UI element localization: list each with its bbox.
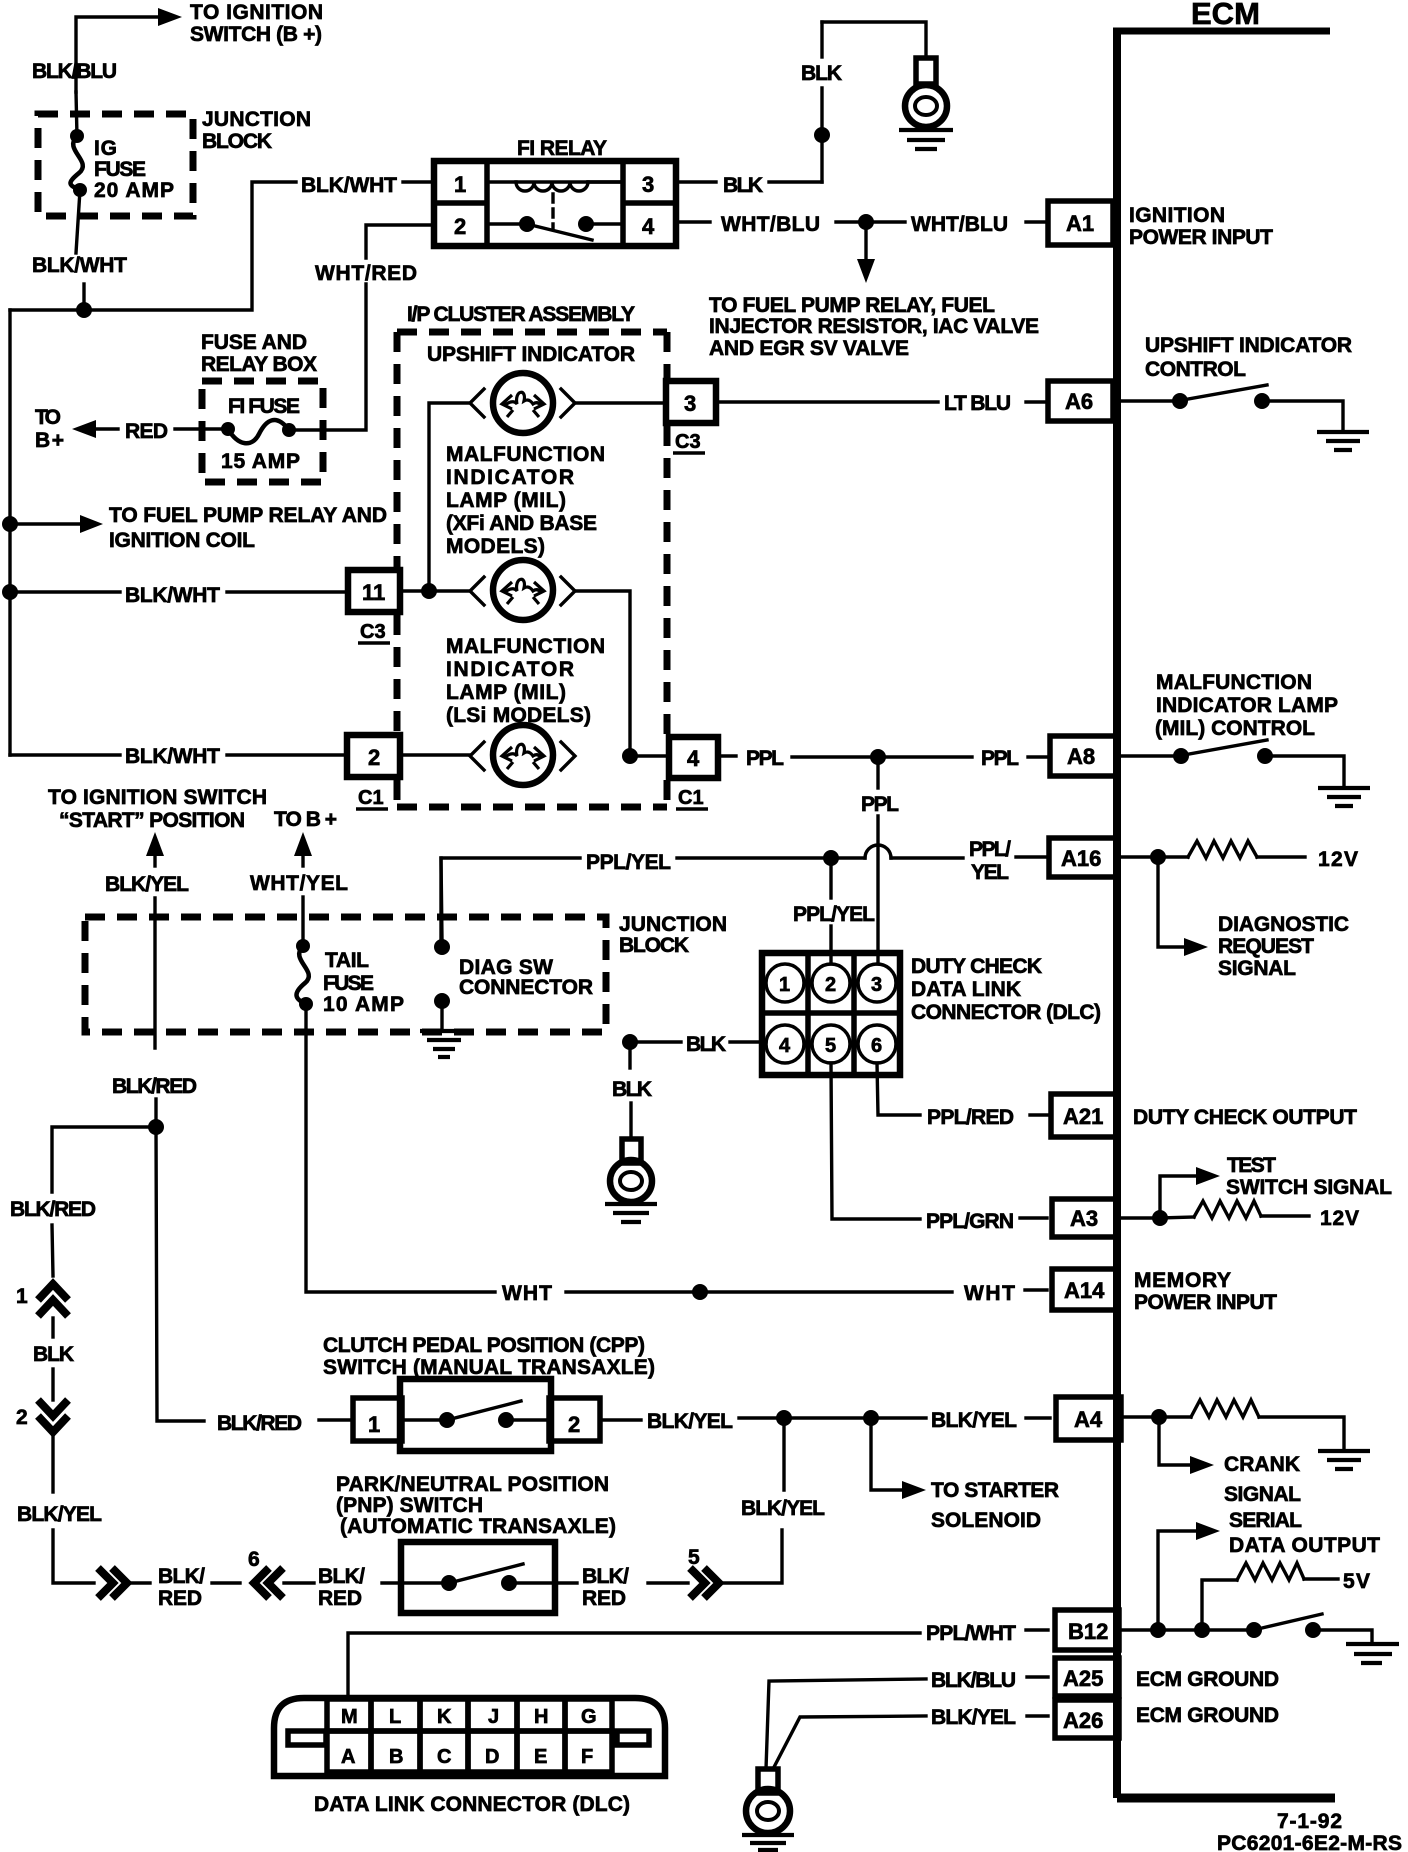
svg-text:B12: B12 xyxy=(1068,1619,1108,1644)
connector pin 2 (C1) xyxy=(347,735,400,777)
svg-text:2: 2 xyxy=(825,974,836,996)
net label TO FUEL PUMP RELAY AND IGNITION COIL xyxy=(109,504,387,552)
connector A25 xyxy=(1055,1658,1119,1696)
wire into PNP switch xyxy=(382,1581,401,1584)
label C3 xyxy=(358,621,390,643)
wire WHT/YEL into tail fuse xyxy=(301,897,304,946)
svg-text:AND EGR SV VALVE: AND EGR SV VALVE xyxy=(709,337,909,360)
svg-text:3: 3 xyxy=(871,974,882,996)
svg-text:BLK: BLK xyxy=(33,1343,74,1366)
wire PPL from pin 4 xyxy=(718,754,736,757)
wire stub into A6 xyxy=(1026,400,1045,403)
node A4 branch xyxy=(1151,1409,1167,1425)
PNP contacts xyxy=(401,1564,555,1591)
ground B12 xyxy=(1346,1644,1399,1663)
svg-text:PPL/RED: PPL/RED xyxy=(927,1106,1014,1129)
wire BLK/YEL from eyelet to A26 xyxy=(773,1716,1048,1769)
svg-text:BLK/BLU: BLK/BLU xyxy=(32,60,117,83)
svg-text:4: 4 xyxy=(642,214,655,239)
inline connector 5 (right chevrons) xyxy=(688,1546,719,1598)
DLC cells row 1 xyxy=(327,1699,612,1731)
svg-text:BLK/YEL: BLK/YEL xyxy=(931,1409,1017,1432)
resistor pull-up to 12V (test) xyxy=(1160,1201,1309,1218)
svg-text:YEL: YEL xyxy=(971,861,1009,884)
wire BLK/YEL to A4 xyxy=(739,1416,1050,1419)
svg-text:POWER INPUT: POWER INPUT xyxy=(1134,1291,1277,1314)
connector pin 4 (C1) xyxy=(669,737,718,778)
svg-text:A25: A25 xyxy=(1063,1666,1103,1691)
svg-text:BLK/YEL: BLK/YEL xyxy=(931,1706,1016,1729)
inline connector 6 (left chevrons) xyxy=(248,1548,283,1598)
svg-text:WHT/BLU: WHT/BLU xyxy=(911,213,1008,236)
svg-text:BLK/: BLK/ xyxy=(158,1565,205,1588)
svg-text:BLK: BLK xyxy=(686,1033,726,1056)
DLC pin 5 xyxy=(812,1025,850,1063)
svg-text:BLK/BLU: BLK/BLU xyxy=(931,1669,1016,1692)
node BLK/YEL from PNP riser xyxy=(776,1410,792,1426)
DLC data link connector body xyxy=(274,1698,665,1776)
node main BLK/WHT junction xyxy=(76,302,92,318)
svg-text:WHT: WHT xyxy=(964,1282,1015,1305)
ground diag sw xyxy=(420,1031,468,1057)
svg-text:TAIL: TAIL xyxy=(325,949,369,972)
wire pin 2 to lamp xyxy=(400,753,470,756)
svg-text:MALFUNCTION: MALFUNCTION xyxy=(1156,671,1312,694)
wire from A4 xyxy=(1121,1415,1152,1418)
wire BLK/BLU from eyelet to A25 xyxy=(766,1677,1048,1769)
svg-text:BLK/WHT: BLK/WHT xyxy=(125,745,220,768)
wire segment xyxy=(51,1318,54,1337)
wire arrow serial data output xyxy=(1158,1522,1220,1630)
wire pin 11 to lamp xyxy=(400,589,470,592)
wire PPL to junction xyxy=(792,755,870,758)
wire to ignition switch B+ xyxy=(76,8,182,92)
svg-text:BLK/: BLK/ xyxy=(582,1565,629,1588)
svg-text:INJECTOR RESISTOR, IAC VALVE: INJECTOR RESISTOR, IAC VALVE xyxy=(709,315,1039,338)
net label SERIAL DATA OUTPUT xyxy=(1229,1509,1380,1557)
net label TO IGNITION SWITCH "START" POSITION xyxy=(48,786,267,832)
node BLK/RED branch xyxy=(148,1119,164,1135)
svg-text:IGNITION: IGNITION xyxy=(1129,204,1225,227)
svg-text:PPL/YEL: PPL/YEL xyxy=(586,851,671,874)
svg-text:CONNECTOR: CONNECTOR xyxy=(459,976,593,999)
wire stub into A8 xyxy=(1028,755,1046,758)
wire stub into A3 xyxy=(1020,1216,1047,1219)
wire from A3 xyxy=(1121,1216,1152,1219)
svg-text:LAMP (MIL): LAMP (MIL) xyxy=(446,681,566,704)
svg-text:SOLENOID: SOLENOID xyxy=(931,1509,1041,1532)
svg-text:3: 3 xyxy=(684,391,696,416)
svg-text:DATA OUTPUT: DATA OUTPUT xyxy=(1229,1534,1380,1557)
wire stub into CPP pin 1 xyxy=(319,1418,353,1421)
svg-text:6: 6 xyxy=(871,1035,882,1057)
svg-text:“START” POSITION: “START” POSITION xyxy=(59,809,245,832)
wire MIL XFi to LSi drop xyxy=(575,591,630,756)
svg-text:J: J xyxy=(488,1706,499,1728)
wire label PPL/ YEL (at A16) xyxy=(969,838,1011,884)
connector A1 xyxy=(1048,201,1113,245)
wire fuse output down xyxy=(76,190,80,253)
wire lamp to pin 3 xyxy=(575,401,666,404)
svg-text:12V: 12V xyxy=(1320,1207,1359,1230)
ground eyelet (ECM grounds) xyxy=(742,1769,794,1850)
svg-text:A1: A1 xyxy=(1066,211,1094,236)
wire into DLC pin 4 xyxy=(730,1040,766,1043)
svg-text:B +: B + xyxy=(35,429,64,452)
wire PPL to A8 xyxy=(886,755,972,758)
wire BLK/YEL down through junction block xyxy=(153,898,156,1048)
svg-text:PPL: PPL xyxy=(746,747,784,770)
svg-text:G: G xyxy=(581,1706,597,1728)
wire segment xyxy=(52,1225,53,1276)
resistor crank pull to ground xyxy=(1159,1400,1344,1449)
svg-text:LAMP (MIL): LAMP (MIL) xyxy=(446,489,566,512)
junction block (IG fuse) dashed box xyxy=(38,114,193,216)
svg-text:RED: RED xyxy=(318,1587,362,1610)
svg-text:BLK/YEL: BLK/YEL xyxy=(741,1497,825,1520)
connector A26 xyxy=(1055,1700,1119,1738)
svg-text:(PNP) SWITCH: (PNP) SWITCH xyxy=(336,1494,483,1517)
wire to pin 4 xyxy=(630,754,669,757)
svg-text:6: 6 xyxy=(248,1548,260,1571)
connector pin 3 (C3) xyxy=(666,381,716,423)
wire stub into A1 xyxy=(1026,220,1045,223)
wire BLK/WHT to pin 11 xyxy=(10,590,120,593)
node PPL branch xyxy=(870,749,886,765)
wire segment xyxy=(284,1581,314,1584)
svg-text:A6: A6 xyxy=(1065,389,1093,414)
connector A16 xyxy=(1049,838,1116,877)
wire to junction xyxy=(836,220,858,223)
connector A8 xyxy=(1050,736,1116,776)
svg-text:5: 5 xyxy=(688,1546,700,1569)
svg-text:BLK/WHT: BLK/WHT xyxy=(301,174,397,197)
svg-text:CONNECTOR (DLC): CONNECTOR (DLC) xyxy=(911,1001,1101,1024)
label MALFUNCTION INDICATOR LAMP (MIL) CONTROL xyxy=(1155,671,1338,740)
svg-text:2: 2 xyxy=(454,214,466,239)
svg-text:BLK/: BLK/ xyxy=(318,1565,365,1588)
node A16 branch xyxy=(1150,849,1166,865)
wire PPL/WHT from DLC to B12 xyxy=(348,1630,1048,1698)
lamp MIL (LSi) xyxy=(470,725,575,785)
label UPSHIFT INDICATOR CONTROL xyxy=(1145,334,1352,381)
off-page connector 1 (up chevrons) xyxy=(16,1284,68,1316)
ground A6 xyxy=(1317,432,1369,450)
DLC pin 1 xyxy=(766,964,804,1002)
svg-text:BLK/RED: BLK/RED xyxy=(10,1198,96,1221)
svg-text:3: 3 xyxy=(642,172,654,197)
svg-text:2: 2 xyxy=(568,1412,580,1437)
label FUSE AND RELAY BOX xyxy=(201,331,317,376)
svg-text:A3: A3 xyxy=(1070,1206,1098,1231)
off-page connector 2 (down chevrons) xyxy=(16,1400,68,1432)
wire left rail down xyxy=(8,310,11,755)
svg-text:PPL/WHT: PPL/WHT xyxy=(926,1622,1016,1645)
svg-text:20 AMP: 20 AMP xyxy=(94,179,174,202)
connector A6 xyxy=(1048,381,1113,421)
svg-text:5: 5 xyxy=(825,1035,836,1057)
label MALFUNCTION INDICATOR LAMP (MIL) (LSi MODELS) xyxy=(446,635,605,727)
connector pin 11 (C3) xyxy=(348,570,400,612)
node starter branch xyxy=(863,1410,879,1426)
svg-text:BLK: BLK xyxy=(612,1078,652,1101)
wire BLK/YEL riser to A4 line xyxy=(720,1424,784,1583)
svg-text:BLK/YEL: BLK/YEL xyxy=(105,873,189,896)
svg-text:4: 4 xyxy=(687,746,700,771)
wire label BLK/ RED xyxy=(158,1565,205,1610)
label C1 xyxy=(676,787,708,809)
wire arrow to starter solenoid xyxy=(871,1426,926,1499)
svg-text:12V: 12V xyxy=(1318,848,1358,871)
connector A4 xyxy=(1056,1397,1121,1440)
node BLK splice (diag ground wire) xyxy=(622,1034,638,1050)
wire into pin 11 xyxy=(227,590,348,593)
DLC pin 3 xyxy=(858,964,896,1002)
svg-text:L: L xyxy=(389,1706,401,1728)
ECM top bar xyxy=(1113,28,1330,35)
svg-text:BLK/WHT: BLK/WHT xyxy=(125,584,220,607)
svg-text:SWITCH (MANUAL TRANSAXLE): SWITCH (MANUAL TRANSAXLE) xyxy=(323,1356,655,1379)
svg-text:10 AMP: 10 AMP xyxy=(323,993,404,1016)
resistor pull-up to 12V xyxy=(1158,841,1305,858)
svg-text:TO STARTER: TO STARTER xyxy=(931,1479,1059,1502)
svg-text:PPL: PPL xyxy=(981,747,1019,770)
lamp MIL (XFi and base) xyxy=(470,560,575,620)
net label CRANK SIGNAL xyxy=(1224,1453,1301,1506)
svg-text:F: F xyxy=(581,1746,593,1768)
wire arrow to fuel pump relay xyxy=(10,515,103,533)
duty check DLC connector box xyxy=(762,953,900,1075)
svg-text:SWITCH SIGNAL: SWITCH SIGNAL xyxy=(1226,1176,1392,1199)
wire arrow WHT/YEL up to B+ xyxy=(294,832,312,866)
relay actuator dashed link xyxy=(551,194,554,228)
fuse IG FUSE 20 AMP xyxy=(70,129,87,197)
switch CPP body xyxy=(353,1379,600,1451)
svg-text:I/P CLUSTER ASSEMBLY: I/P CLUSTER ASSEMBLY xyxy=(407,303,635,326)
svg-text:MALFUNCTION: MALFUNCTION xyxy=(446,635,605,658)
wire into pin 2 xyxy=(227,753,347,756)
wire BLK/YEL from CPP pin 2 xyxy=(600,1418,641,1421)
wire arrow to B+ xyxy=(72,420,118,438)
wire into IG fuse xyxy=(76,92,77,137)
svg-text:JUNCTION: JUNCTION xyxy=(202,108,311,131)
ECM bottom bar xyxy=(1117,1794,1335,1803)
wire PPL/YEL horizontal to A16 xyxy=(441,845,1046,947)
svg-text:RELAY BOX: RELAY BOX xyxy=(201,353,317,376)
ground A4 xyxy=(1318,1451,1370,1469)
resistor pull-up to 5V xyxy=(1202,1563,1338,1630)
svg-text:A: A xyxy=(341,1746,355,1768)
lamp upshift indicator xyxy=(470,373,575,433)
value label TAIL FUSE 10 AMP xyxy=(323,949,404,1016)
node serial branch xyxy=(1150,1622,1166,1638)
wire segment xyxy=(1158,1628,1194,1631)
svg-text:BLK: BLK xyxy=(801,62,842,85)
wire upshift lamp left drop xyxy=(429,403,470,591)
svg-text:TO B +: TO B + xyxy=(274,808,337,831)
wire DLC pin 5 to A3 xyxy=(831,1063,920,1219)
wire BLK/WHT to cluster pin 2 xyxy=(10,753,120,756)
svg-text:SWITCH (B +): SWITCH (B +) xyxy=(190,23,322,46)
wire BLK/RED down to CPP xyxy=(156,1099,204,1421)
svg-text:A8: A8 xyxy=(1067,744,1095,769)
junction block (tail fuse/diag) dashed box xyxy=(85,917,606,1032)
svg-text:D: D xyxy=(485,1746,499,1768)
svg-text:4: 4 xyxy=(779,1035,791,1057)
relay coil xyxy=(487,182,623,191)
svg-text:E: E xyxy=(534,1746,547,1768)
svg-text:C: C xyxy=(437,1746,451,1768)
wire arrow crank signal xyxy=(1159,1424,1214,1474)
wire DLC pin 6 to A21 xyxy=(877,1063,920,1115)
wire PPL/YEL drop to DLC pin 2 xyxy=(829,858,832,964)
ECM main vertical line xyxy=(1113,28,1121,1798)
connector A21 xyxy=(1051,1094,1118,1137)
svg-text:ECM GROUND: ECM GROUND xyxy=(1136,1668,1279,1691)
svg-text:TO IGNITION SWITCH: TO IGNITION SWITCH xyxy=(48,786,267,809)
wire segment xyxy=(51,1434,54,1492)
fuse TAIL FUSE 10 AMP xyxy=(296,939,313,1011)
net label TO FUEL PUMP RELAY, FUEL INJECTOR RESISTOR, IAC VALVE AND EGR SV VALVE xyxy=(709,294,1039,360)
svg-text:ECM GROUND: ECM GROUND xyxy=(1136,1704,1279,1727)
label C3 xyxy=(673,431,705,453)
wire arrow diagnostic request xyxy=(1158,863,1208,956)
svg-text:SIGNAL: SIGNAL xyxy=(1218,957,1296,980)
svg-text:C3: C3 xyxy=(360,621,386,643)
svg-text:WHT/RED: WHT/RED xyxy=(315,262,417,285)
ground eyelet (ECM case ground top) xyxy=(899,58,953,149)
I/P cluster assembly dashed box xyxy=(397,332,667,807)
net label TO STARTER SOLENOID xyxy=(931,1479,1059,1532)
relay FI RELAY body xyxy=(434,161,676,246)
connector B12 xyxy=(1055,1610,1119,1650)
svg-text:A16: A16 xyxy=(1061,846,1101,871)
svg-text:IGNITION COIL: IGNITION COIL xyxy=(109,529,255,552)
svg-text:UPSHIFT INDICATOR: UPSHIFT INDICATOR xyxy=(1145,334,1352,357)
svg-text:FUSE: FUSE xyxy=(323,972,374,995)
svg-text:2: 2 xyxy=(16,1406,28,1429)
svg-text:WHT/YEL: WHT/YEL xyxy=(250,872,348,895)
svg-text:BLK/YEL: BLK/YEL xyxy=(17,1503,102,1526)
net label DIAGNOSTIC REQUEST SIGNAL xyxy=(1218,913,1349,980)
fuse and relay box dashed xyxy=(202,381,323,482)
node PPL/YEL branch xyxy=(823,850,839,866)
svg-text:BLK/RED: BLK/RED xyxy=(217,1412,302,1435)
DLC pin 2 xyxy=(812,964,850,1002)
wire from B12 xyxy=(1121,1628,1150,1631)
value label IG FUSE 20 AMP xyxy=(94,137,174,202)
wire BLK/WHT horizontal rail xyxy=(10,182,296,310)
wire BLK to DLC pin 4 xyxy=(636,1040,681,1043)
wire WHT/BLU from relay pin 4 xyxy=(676,220,710,223)
switch B12 to ground xyxy=(1246,1614,1372,1643)
svg-text:INDICATOR LAMP: INDICATOR LAMP xyxy=(1156,694,1338,717)
svg-text:REQUEST: REQUEST xyxy=(1218,935,1314,958)
svg-text:B: B xyxy=(389,1746,403,1768)
node upshift/MIL junction xyxy=(421,583,437,599)
node BLK splice xyxy=(814,127,830,143)
node WHT splice xyxy=(692,1284,708,1300)
wire segment xyxy=(648,1581,688,1584)
wire label BLK/ RED xyxy=(318,1565,365,1610)
svg-text:TO FUEL PUMP RELAY AND: TO FUEL PUMP RELAY AND xyxy=(109,504,387,527)
svg-text:H: H xyxy=(534,1706,548,1728)
node MIL output junction xyxy=(622,748,638,764)
label JUNCTION BLOCK xyxy=(202,108,311,153)
svg-text:DUTY CHECK: DUTY CHECK xyxy=(911,955,1042,978)
wire BLK down to eyelet xyxy=(630,1042,631,1139)
wire arrow down to fuel pump relay etc xyxy=(857,230,875,283)
svg-text:UPSHIFT INDICATOR: UPSHIFT INDICATOR xyxy=(427,343,635,366)
svg-text:K: K xyxy=(437,1706,452,1728)
svg-text:WHT: WHT xyxy=(502,1282,552,1305)
svg-text:(AUTOMATIC TRANSAXLE): (AUTOMATIC TRANSAXLE) xyxy=(340,1515,616,1538)
svg-text:CLUTCH PEDAL POSITION (CPP): CLUTCH PEDAL POSITION (CPP) xyxy=(323,1334,645,1357)
wire LT BLU to A6 xyxy=(716,400,938,403)
svg-text:SIGNAL: SIGNAL xyxy=(1224,1483,1301,1506)
svg-text:RED: RED xyxy=(582,1587,626,1610)
svg-text:5V: 5V xyxy=(1343,1570,1370,1593)
DLC cells row 2 xyxy=(327,1731,612,1772)
svg-text:MODELS): MODELS) xyxy=(446,535,545,558)
svg-text:RED: RED xyxy=(125,420,168,443)
svg-text:A26: A26 xyxy=(1063,1708,1103,1733)
diag sw connector terminals xyxy=(434,939,450,1030)
wire RED into fuse xyxy=(175,427,228,430)
svg-text:DATA LINK CONNECTOR (DLC): DATA LINK CONNECTOR (DLC) xyxy=(314,1793,630,1816)
svg-text:JUNCTION: JUNCTION xyxy=(619,913,727,936)
wire into relay pin 1 xyxy=(403,180,434,183)
wire from A16 xyxy=(1121,855,1150,858)
ground A8 xyxy=(1318,788,1370,806)
wire segment xyxy=(128,1581,150,1584)
svg-text:POWER INPUT: POWER INPUT xyxy=(1129,226,1273,249)
svg-text:LT BLU: LT BLU xyxy=(944,392,1011,415)
switch MIL control to ground xyxy=(1121,740,1344,786)
svg-text:BLK/YEL: BLK/YEL xyxy=(647,1410,733,1433)
DLC pin 6 xyxy=(858,1025,896,1063)
node BLK/WHT to cluster pin 11 xyxy=(2,584,18,600)
label PARK/NEUTRAL POSITION (PNP) SWITCH (AUTOMATIC TRANSAXLE) xyxy=(336,1473,616,1538)
node A3 branch xyxy=(1152,1210,1168,1226)
svg-text:CONTROL: CONTROL xyxy=(1145,358,1246,381)
svg-text:PPL/GRN: PPL/GRN xyxy=(926,1210,1014,1233)
net label TO IGNITION SWITCH (B+) xyxy=(190,1,323,46)
label MEMORY POWER INPUT xyxy=(1134,1269,1277,1314)
wire segment to PNP row xyxy=(53,1530,94,1583)
svg-text:TO IGNITION: TO IGNITION xyxy=(190,1,323,24)
svg-text:DATA LINK: DATA LINK xyxy=(911,978,1021,1001)
wire BLK from relay pin 3 xyxy=(676,180,716,183)
svg-text:WHT/BLU: WHT/BLU xyxy=(721,213,820,236)
svg-text:FUSE: FUSE xyxy=(94,158,146,181)
svg-text:FI FUSE: FI FUSE xyxy=(228,395,300,418)
net label TO B+ xyxy=(35,406,64,452)
svg-text:15 AMP: 15 AMP xyxy=(221,450,300,473)
svg-text:CRANK: CRANK xyxy=(1224,1453,1300,1476)
svg-text:(XFi AND BASE: (XFi AND BASE xyxy=(446,512,597,535)
svg-text:BLK: BLK xyxy=(723,174,763,197)
svg-text:1: 1 xyxy=(779,974,790,996)
label CLUTCH PEDAL POSITION (CPP) SWITCH (MANUAL TRANSAXLE) xyxy=(323,1334,655,1379)
connector A14 xyxy=(1052,1269,1117,1310)
svg-text:TEST: TEST xyxy=(1227,1154,1276,1177)
svg-text:FI RELAY: FI RELAY xyxy=(517,137,607,160)
svg-text:1: 1 xyxy=(454,172,466,197)
svg-text:BLK/WHT: BLK/WHT xyxy=(32,254,127,277)
wire WHT from tail fuse to A14 xyxy=(306,1004,1047,1292)
svg-text:(MIL) CONTROL: (MIL) CONTROL xyxy=(1155,717,1315,740)
